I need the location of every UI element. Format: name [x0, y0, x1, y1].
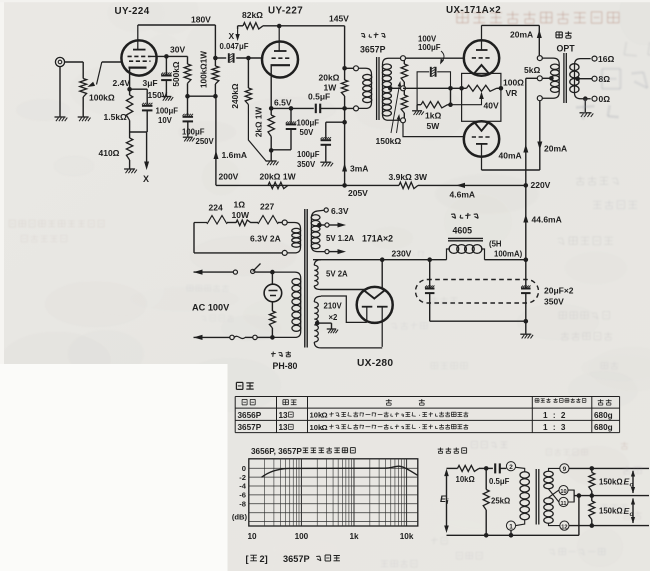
rail 200V [215, 96, 217, 185]
svg-text:30V: 30V [170, 45, 185, 55]
resistor 100k1W [212, 58, 219, 96]
wire grid lower [403, 123, 464, 137]
svg-text:100μF: 100μF [297, 150, 320, 159]
wire grid upper [405, 57, 464, 59]
pilot lamp [264, 272, 282, 311]
bleedthrough right column [559, 312, 618, 370]
cap 100uF 10V [130, 89, 153, 132]
svg-text:680g: 680g [594, 423, 613, 432]
svg-text:410Ω: 410Ω [99, 148, 120, 158]
svg-text:224: 224 [209, 203, 223, 213]
svg-text:0.047μF: 0.047μF [220, 42, 249, 51]
graph ylabels [232, 464, 248, 522]
meas top right [569, 466, 649, 471]
svg-text:20mA: 20mA [544, 144, 567, 154]
wire Bplus up [523, 78, 537, 185]
label 40V [484, 101, 499, 111]
label luxe4605 [451, 213, 478, 236]
svg-text:1 : 2: 1 : 2 [543, 411, 567, 420]
label luxe 3657P [360, 33, 386, 55]
wire plateL [321, 296, 367, 322]
label 100uF50V [297, 119, 320, 138]
svg-text:100μF: 100μF [156, 107, 179, 116]
resistor 20k1W [341, 68, 347, 122]
svg-text:40mA: 40mA [499, 151, 522, 161]
svg-text:150kΩ: 150kΩ [599, 478, 623, 487]
meas 25k [483, 466, 510, 537]
svg-text:350V: 350V [544, 297, 564, 307]
label tango [271, 351, 298, 371]
label 3uF [143, 78, 158, 88]
svg-text:180V: 180V [191, 15, 211, 25]
wire cathode [127, 68, 132, 92]
meas mid join [568, 490, 581, 535]
svg-text:-4: -4 [239, 482, 247, 491]
wire 145V to term [342, 66, 353, 71]
wire 350V cap [320, 122, 344, 166]
cap 20uF left [425, 260, 435, 322]
label 150k [376, 136, 402, 146]
resistor 150k lower [401, 90, 407, 118]
PH80 left 6.3V winding [287, 223, 301, 253]
svg-text:10k: 10k [400, 532, 414, 541]
svg-text:10V: 10V [158, 116, 173, 125]
svg-text:500kΩ: 500kΩ [171, 61, 181, 86]
svg-text:3657P: 3657P [238, 423, 262, 432]
svg-text:100: 100 [295, 532, 309, 541]
svg-text:100μF: 100μF [297, 119, 320, 128]
svg-text:5W: 5W [427, 121, 441, 131]
svg-text:3657P: 3657P [360, 45, 386, 55]
OPT ground [580, 99, 594, 117]
meas term10 [559, 486, 568, 495]
meas core [536, 469, 539, 525]
diagonal 240k gnd dup [266, 161, 268, 163]
bleedthrough left mid [9, 220, 104, 242]
svg-text:9: 9 [563, 466, 567, 473]
node 82k grid [246, 56, 251, 61]
svg-text:0.5μF: 0.5μF [308, 92, 330, 102]
label 100V 100uF [418, 35, 441, 53]
label 500k [171, 61, 181, 86]
label AC100V [192, 303, 230, 313]
svg-text:5kΩ: 5kΩ [524, 65, 540, 75]
table row1 [238, 411, 613, 420]
label 200V [219, 172, 239, 182]
label X bottom [143, 174, 149, 184]
arrow 1.6mA [214, 150, 248, 160]
bleedthrough mid right [558, 176, 637, 244]
svg-text:3mA: 3mA [350, 164, 368, 174]
heater wires [194, 216, 287, 256]
wire 240k [247, 58, 249, 88]
labels heater [209, 200, 275, 221]
svg-text:4605: 4605 [453, 226, 473, 236]
ground under jack [55, 117, 68, 121]
svg-text:10W: 10W [232, 210, 250, 220]
svg-text:UY-227: UY-227 [268, 6, 303, 17]
tube UY-224 [121, 25, 156, 76]
input jack J1 [55, 57, 64, 66]
node 500k bottom [185, 94, 190, 99]
label 100ohm VR [503, 78, 524, 99]
label 210Vx2 [324, 302, 343, 323]
bleedthrough bottom right1 [471, 441, 628, 449]
ground 2k [266, 150, 279, 165]
node 350V branch [342, 120, 347, 125]
pilot resistor [269, 311, 275, 340]
transformer 3657P secondary [382, 56, 405, 123]
meas Eo top [624, 470, 636, 494]
meas bottom wire [447, 534, 579, 536]
ground under 3uF [161, 97, 173, 101]
graph title [251, 447, 355, 456]
bleedthrough right blob [576, 42, 650, 119]
bleedthrough bottom rightY [546, 449, 627, 555]
meas bot right [569, 523, 649, 528]
label UX-171A [446, 5, 501, 16]
meas term2 [506, 462, 515, 471]
choke 4605 [447, 238, 529, 262]
bleedthrough bottom right2 [381, 537, 447, 567]
svg-text:145V: 145V [329, 14, 349, 24]
svg-text:25kΩ: 25kΩ [491, 497, 510, 506]
label 240k [230, 83, 240, 108]
svg-text:-2: -2 [239, 473, 246, 482]
svg-text:OPT: OPT [557, 44, 576, 54]
svg-text:×2: ×2 [329, 313, 339, 322]
svg-text:UX-280: UX-280 [357, 358, 393, 369]
svg-text:2]: 2] [260, 554, 268, 564]
meas mid right [579, 493, 649, 498]
tube UY-227 [262, 26, 298, 78]
table row2 [238, 423, 613, 432]
wire 230V line [313, 257, 447, 262]
svg-text:2: 2 [509, 464, 513, 471]
OPT primary [542, 58, 559, 98]
svg-text:10: 10 [560, 489, 566, 495]
svg-text:50V: 50V [300, 128, 315, 137]
node 220V [524, 180, 551, 190]
svg-text:o: o [630, 482, 634, 489]
svg-text:10kΩ: 10kΩ [456, 475, 475, 484]
svg-text:1W: 1W [324, 83, 338, 93]
node cathode bottom [130, 131, 147, 133]
svg-text:200V: 200V [219, 172, 239, 182]
label 2.4V [113, 78, 131, 88]
label 6.5V [274, 98, 292, 108]
svg-text:-8: -8 [239, 499, 246, 508]
tube UX-280 [357, 287, 393, 347]
rail 205-220 [216, 182, 526, 188]
label 100uF250V [182, 128, 215, 147]
meas 150k bot [589, 496, 623, 526]
PH80 5V2A winding [314, 260, 321, 290]
cap label 0.047 [220, 42, 249, 51]
svg-text:-6: -6 [239, 491, 246, 500]
label 30V [170, 45, 185, 55]
meas cross [549, 489, 559, 502]
meas top wire [447, 465, 493, 484]
ground under 410 [124, 169, 137, 173]
rail to 205V [342, 122, 347, 188]
svg-text:220V: 220V [531, 180, 551, 190]
wire cathode UY-227 [269, 65, 274, 111]
label 205V [348, 188, 368, 198]
AC fuse [194, 335, 273, 340]
label UY-224 [115, 6, 150, 17]
cap 100uF250V [183, 96, 194, 136]
arrow to 150k upper [391, 81, 401, 133]
table frame [235, 397, 619, 433]
wire grid UY-227 [261, 57, 263, 59]
graph grid [249, 459, 418, 526]
OPT terminals [537, 56, 542, 101]
PH80 210V winding [314, 296, 338, 348]
caps 20uFx2 dashed box [416, 280, 539, 304]
resistor 240k [245, 88, 251, 105]
label 180V [191, 15, 211, 25]
wire 145V [279, 26, 344, 69]
label 5H [489, 240, 523, 259]
label 171Ax2 heater [362, 234, 393, 244]
svg-text:20μF×2: 20μF×2 [544, 286, 574, 296]
table headers [242, 398, 611, 405]
svg-text:X: X [229, 31, 235, 41]
wire 240k to gnd [248, 105, 266, 162]
svg-text:150V: 150V [148, 90, 168, 100]
svg-text:0: 0 [242, 464, 246, 473]
svg-text:171A×2: 171A×2 [362, 234, 393, 244]
PH80 core [305, 209, 307, 348]
label 100k [89, 93, 115, 103]
svg-text:0Ω: 0Ω [599, 94, 611, 104]
svg-text:20kΩ: 20kΩ [319, 73, 340, 83]
potentiometer 100k [80, 62, 87, 117]
svg-text:210V: 210V [324, 302, 343, 311]
wire wiper to grid [102, 61, 122, 63]
resistor 1.5k [126, 89, 132, 132]
svg-text:13: 13 [279, 423, 289, 432]
meas term11 [559, 497, 568, 506]
resistor 410 [126, 132, 132, 169]
svg-text:100Ω: 100Ω [503, 78, 524, 88]
node 0.5uF rail [342, 106, 347, 111]
svg-text:4.6mA: 4.6mA [450, 190, 476, 200]
label 6.3V2A [250, 234, 281, 244]
svg-text:150kΩ: 150kΩ [376, 136, 402, 146]
svg-text:1 : 3: 1 : 3 [543, 423, 567, 432]
svg-text:11: 11 [561, 501, 567, 507]
bias node [403, 86, 462, 107]
svg-text:350V: 350V [297, 160, 316, 169]
wire G2 30V [151, 54, 188, 64]
wire plateR [321, 347, 382, 349]
pot wiper arrow [87, 62, 102, 87]
transformer 3657P primary [354, 66, 372, 111]
label 5V1.2A [326, 234, 355, 243]
label UY-227 [268, 6, 303, 17]
svg-text:100mA): 100mA) [494, 249, 523, 258]
label 82k [242, 10, 263, 20]
svg-text:0.5μF: 0.5μF [489, 477, 510, 486]
svg-text:5V 1.2A: 5V 1.2A [326, 234, 355, 243]
label 100uF10V [156, 107, 179, 126]
wire plate upper 20mA [482, 25, 542, 55]
label 2k1W [255, 107, 264, 137]
cap 0.5uF [316, 104, 354, 114]
resistor 82k [238, 23, 280, 29]
label 4.6mA [450, 190, 476, 200]
arrow to 150k lower [397, 114, 401, 133]
label 410 [99, 148, 120, 158]
response curve [262, 466, 418, 477]
Ei arrows [440, 469, 450, 533]
svg-text:44.6mA: 44.6mA [532, 215, 562, 225]
caption fig2 [246, 554, 340, 564]
wire 82k left [237, 26, 239, 29]
bleedthrough ac area [187, 285, 234, 322]
AC switch [194, 264, 273, 275]
label 0.5uF [308, 92, 330, 102]
ground 100uF250V [183, 137, 195, 141]
wire jack to pot [65, 61, 84, 63]
cap 20uF right [521, 260, 531, 322]
label 230V [392, 249, 412, 259]
label 20uFx2 [544, 286, 574, 307]
cap 100uF50V [271, 106, 296, 150]
svg-text:100kΩ1W: 100kΩ1W [200, 51, 209, 88]
svg-text:3μF: 3μF [143, 78, 158, 88]
label 145V [329, 14, 349, 24]
VR 100ohm [459, 85, 503, 91]
svg-text:100μF: 100μF [418, 43, 441, 52]
svg-text:6.3V: 6.3V [331, 206, 349, 216]
wire filament left [320, 289, 366, 291]
bleedthrough ux280 right [391, 251, 467, 369]
cap 3uF 150V [161, 56, 172, 96]
label 40mA [499, 151, 522, 161]
meas term1 [506, 521, 515, 538]
bleedthrough bottom rightX [456, 466, 641, 559]
wire coupling [215, 53, 262, 63]
svg-text:13: 13 [279, 411, 289, 420]
svg-text:2.4V: 2.4V [113, 78, 131, 88]
svg-text:AC 100V: AC 100V [192, 303, 230, 313]
resistor 500k [184, 64, 191, 96]
node 145V plate [277, 24, 282, 29]
svg-text:2kΩ 1W: 2kΩ 1W [255, 107, 264, 137]
tube UX-171A lower [464, 121, 499, 170]
meas secondary [544, 468, 560, 525]
ground under pot [78, 117, 91, 121]
resistor 1k5W [412, 102, 450, 132]
svg-text:20kΩ 1W: 20kΩ 1W [260, 172, 297, 182]
svg-text:10: 10 [247, 532, 257, 541]
label 5k [524, 65, 540, 75]
svg-text:12: 12 [561, 524, 567, 530]
label 5V2A [326, 270, 348, 279]
svg-text:VR: VR [506, 88, 518, 98]
svg-text:82kΩ: 82kΩ [242, 10, 263, 20]
label X top [229, 31, 235, 41]
PH80 right top winding [311, 206, 349, 254]
svg-text:1.6mA: 1.6mA [222, 150, 248, 160]
label OPT [556, 31, 575, 53]
meas term9 [560, 464, 569, 473]
arrow 3mA [342, 163, 368, 174]
svg-text:Ω: Ω [322, 423, 328, 432]
cathode wire right [291, 107, 314, 109]
graph xlabels [247, 532, 413, 541]
svg-text:Ω: Ω [322, 411, 328, 420]
wire plate 180V [138, 25, 216, 58]
arrow cap note [440, 51, 444, 65]
label 150V [148, 90, 168, 100]
wire Bplus down [523, 185, 561, 259]
label 1.5k [104, 112, 128, 122]
svg-text:40V: 40V [484, 101, 499, 111]
svg-text:(5H: (5H [489, 240, 502, 249]
arrow X down [144, 162, 149, 171]
meas 150k top [589, 468, 623, 495]
label 100uF350V [297, 150, 320, 169]
meas term12 [560, 521, 569, 530]
svg-text:250V: 250V [196, 137, 215, 146]
svg-text:UX-171A×2: UX-171A×2 [446, 5, 501, 16]
filament box [462, 73, 501, 121]
VR wiper [451, 92, 484, 105]
wire G2-load join [188, 94, 218, 99]
meas primary [516, 467, 530, 525]
svg-text:UY-224: UY-224 [115, 6, 150, 17]
svg-text:(dB): (dB) [232, 513, 248, 522]
label UX-280 [357, 358, 393, 369]
svg-text:3.9kΩ 3W: 3.9kΩ 3W [389, 172, 428, 182]
meas cap 0.5uF [489, 463, 510, 486]
svg-text:20mA: 20mA [510, 30, 533, 40]
bleedthrough top right [457, 11, 619, 23]
svg-text:5V 2A: 5V 2A [326, 270, 348, 279]
PH80 primary [272, 272, 300, 337]
svg-text:3656P, 3657P: 3656P, 3657P [251, 447, 302, 456]
left white scan edge [0, 0, 4, 571]
OPT secondary [570, 56, 597, 101]
svg-text:3657P: 3657P [283, 554, 310, 564]
core 3657P [377, 57, 379, 120]
svg-text:680g: 680g [594, 411, 613, 420]
svg-text:205V: 205V [348, 188, 368, 198]
svg-text:X: X [143, 174, 149, 184]
tube UX-171A upper [464, 25, 499, 75]
cap 100uF bias [417, 67, 450, 105]
svg-text:1Ω: 1Ω [234, 200, 246, 210]
label sokutei [438, 448, 467, 454]
OPT core [564, 53, 566, 103]
label 20k1W [319, 73, 340, 93]
resistor 150k upper [401, 60, 407, 86]
label 100k1W [200, 51, 209, 88]
wire plate lower [482, 101, 568, 171]
svg-text:PH-80: PH-80 [273, 361, 298, 371]
svg-text:1kΩ: 1kΩ [425, 111, 441, 121]
label 20k1W rail [260, 172, 297, 182]
svg-text:100kΩ: 100kΩ [89, 93, 115, 103]
wire jack to ground [59, 67, 61, 117]
svg-text:6.5V: 6.5V [274, 98, 292, 108]
svg-text:[: [ [246, 554, 249, 564]
labels taps [598, 54, 614, 104]
